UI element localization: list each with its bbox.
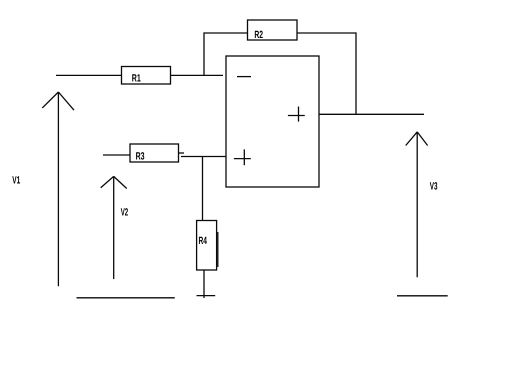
arrow V1 xyxy=(57,92,59,286)
wire xyxy=(355,32,357,114)
wire xyxy=(179,152,185,154)
wire xyxy=(181,156,226,158)
minus xyxy=(237,76,251,78)
ground reference line left xyxy=(77,297,175,299)
ground reference line right xyxy=(397,295,448,297)
svg-text:R3: R3 xyxy=(136,150,145,162)
op-amp U1 xyxy=(226,56,319,187)
svg-text:V2: V2 xyxy=(121,207,129,219)
resistor R4 xyxy=(197,221,217,271)
wire xyxy=(297,32,356,34)
wire xyxy=(319,113,424,115)
wire xyxy=(203,270,205,298)
svg-text:V3: V3 xyxy=(430,181,438,193)
plus (output polarity) xyxy=(288,115,305,117)
wire xyxy=(204,32,248,34)
wire xyxy=(202,157,204,221)
arrow V2 xyxy=(113,176,115,279)
wire xyxy=(203,32,205,76)
resistor R1 xyxy=(122,67,171,85)
wire xyxy=(171,74,224,76)
svg-text:R4: R4 xyxy=(199,235,208,247)
ground xyxy=(197,295,216,297)
wire xyxy=(103,154,130,156)
svg-text:R1: R1 xyxy=(132,73,141,85)
plus (noninverting input) xyxy=(234,158,251,160)
resistor R2 xyxy=(248,20,298,40)
svg-text:V1: V1 xyxy=(12,174,20,186)
svg-text:R2: R2 xyxy=(254,29,263,41)
resistor R3 xyxy=(130,144,179,162)
arrow V3 xyxy=(416,132,418,277)
wire xyxy=(56,74,122,76)
